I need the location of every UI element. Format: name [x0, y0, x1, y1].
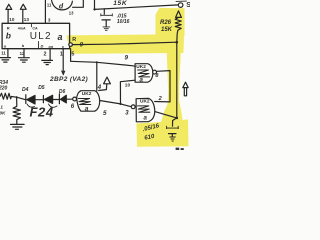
svg-text:R: R — [7, 25, 10, 30]
svg-text:R26: R26 — [160, 20, 172, 26]
svg-text:10: 10 — [125, 82, 131, 88]
svg-text:b: b — [6, 31, 11, 41]
svg-text:4mA: 4mA — [18, 26, 26, 30]
svg-text:UL2: UL2 — [30, 31, 52, 42]
svg-text:D4: D4 — [22, 87, 29, 93]
svg-text:10/16: 10/16 — [117, 19, 130, 25]
svg-text:on: on — [49, 45, 54, 49]
svg-text:CA: CA — [32, 27, 38, 31]
svg-text:3: 3 — [48, 18, 51, 23]
svg-text:12: 12 — [20, 51, 25, 56]
svg-text:9: 9 — [125, 55, 129, 62]
svg-text:D: D — [41, 44, 44, 49]
svg-text:15K: 15K — [161, 27, 173, 33]
svg-text:2: 2 — [44, 51, 47, 57]
svg-text:5: 5 — [103, 110, 107, 117]
svg-text:11: 11 — [1, 51, 6, 56]
svg-text:UK2: UK2 — [136, 64, 146, 70]
svg-text:10: 10 — [9, 17, 15, 22]
svg-text:220: 220 — [0, 85, 8, 91]
svg-text:a: a — [58, 32, 63, 42]
svg-text:a: a — [140, 77, 144, 84]
svg-text:UK2: UK2 — [82, 91, 92, 97]
svg-text:13: 13 — [24, 17, 30, 22]
svg-text:11: 11 — [47, 2, 52, 7]
svg-text:2BP2 (VA2): 2BP2 (VA2) — [49, 76, 88, 83]
svg-text:d: d — [59, 4, 64, 11]
svg-text:5: 5 — [71, 52, 74, 58]
svg-text:1: 1 — [0, 105, 3, 110]
svg-text:R: R — [72, 37, 76, 43]
svg-text:1: 1 — [60, 51, 63, 57]
svg-text:D5: D5 — [38, 85, 45, 91]
svg-text:a: a — [85, 105, 89, 112]
svg-text:a: a — [144, 115, 148, 122]
svg-text:UK2: UK2 — [140, 99, 150, 105]
svg-text:0K: 0K — [0, 110, 6, 115]
svg-text:F24: F24 — [30, 105, 54, 120]
svg-text:S: S — [186, 2, 190, 9]
svg-text:15K: 15K — [113, 0, 128, 7]
svg-text:4: 4 — [97, 85, 102, 91]
svg-text:13: 13 — [69, 10, 74, 15]
svg-text:D6: D6 — [59, 89, 66, 95]
